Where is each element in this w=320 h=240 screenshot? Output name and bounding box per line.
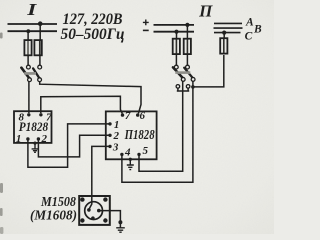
wire fuse F4 to switch S2 [186, 54, 188, 65]
switch S2 lower contact a [181, 78, 185, 82]
motor mounting dot top-right [103, 197, 107, 201]
wire R1828 pin7 to P1828 pin7 [41, 96, 123, 113]
wire phase C to switch S2 pole b [193, 55, 224, 87]
scan smudge left edge upper [0, 33, 3, 39]
node junction phase C tap [191, 85, 195, 89]
wire fuse F2 to switch S1 [39, 55, 41, 65]
switch S2 blade a [173, 67, 183, 78]
pin 2 of R1828 [37, 133, 48, 145]
pin 7 of P1828 [121, 110, 131, 122]
switch S2 upper contact b [186, 65, 190, 69]
polarity minus [143, 29, 149, 31]
node junction on II line2 [174, 30, 178, 34]
label M1508 [40, 194, 76, 209]
pin 3 of P1828 [108, 141, 119, 153]
node junction on line1 [38, 21, 43, 26]
motor M1508 connector box [79, 196, 110, 225]
label phase A [245, 17, 254, 29]
fuse F1 [24, 40, 31, 55]
switch S1 lower contact b [38, 78, 42, 82]
label R1828 [19, 119, 49, 134]
wire P1828 pin5 to connector X1 [139, 81, 183, 171]
wire fuse F3 to switch S2 [175, 54, 177, 65]
wire P1828 pin3 to motor [89, 146, 109, 208]
scan smudge left edge lower [0, 208, 3, 216]
motor mounting dot bottom-left [80, 218, 84, 222]
ground under P1828 [127, 158, 134, 170]
polarity plus [143, 20, 149, 26]
pin 8 of R1828 [19, 112, 31, 124]
pin 1 of R1828 [16, 133, 30, 145]
switch S2 upper contact a [174, 65, 178, 69]
wire S1 pole a to R1828 pin8 [28, 82, 30, 114]
pin 4 of P1828 [120, 146, 131, 158]
wire line2 branch II [154, 31, 195, 33]
pin 1 of P1828 [108, 119, 119, 131]
motor pin c [91, 216, 95, 220]
wire R1828 pin2 to P1828 pin2 [38, 135, 109, 157]
wire line1 branch I [8, 23, 58, 25]
value label 50-500Hz [61, 26, 125, 43]
wire phase C to fuse F5 [223, 33, 225, 39]
pin 2 of P1828 [108, 130, 119, 142]
node II label [198, 2, 213, 21]
switch S1 upper contact b [38, 65, 42, 69]
node junction on II line1 [185, 23, 189, 27]
motor pin b [97, 209, 101, 213]
scan smudge left edge middle [0, 183, 3, 193]
node junction on line2 [26, 29, 30, 33]
fuse F4 [184, 39, 191, 54]
pin 6 of P1828 [136, 110, 146, 122]
wire R1828 pin1 to P1828 pin1 [28, 124, 109, 167]
connector X1 plug bar [177, 88, 189, 91]
wire line2 branch I [8, 30, 58, 32]
wire line1 to fuse F2 [39, 24, 41, 41]
wire motor case to ground [99, 211, 123, 228]
wire fuse F1 to switch S1 [27, 55, 29, 65]
label P1828 [124, 127, 155, 142]
value label 127,220V [63, 11, 123, 28]
switch S1 blade b [33, 68, 39, 78]
node I label [26, 0, 38, 19]
fuse F2 [34, 40, 41, 55]
switch S2 lower contact b [191, 78, 195, 82]
switch S2 link bar [175, 71, 190, 74]
ground under R1828 [32, 142, 39, 153]
motor mounting dot bottom-right [103, 218, 107, 222]
wire phase B [214, 27, 243, 29]
fuse F3 [173, 39, 180, 54]
wire phase A [214, 22, 242, 24]
motor circle [85, 202, 103, 220]
switch S1 upper contact a [27, 65, 31, 69]
wire II line1 to fuse F4 [186, 25, 188, 39]
connector X1 socket a [176, 85, 180, 89]
label M1608 [30, 207, 77, 222]
switch S1 lower contact a [28, 78, 32, 82]
box P1828 [106, 111, 157, 159]
wire line2 to fuse F1 [27, 31, 29, 40]
pin 7 of R1828 [39, 112, 52, 124]
wire S1 pole b to P1828 pin6 [40, 82, 141, 114]
label phase B [253, 24, 262, 36]
wire P1828 pin4 to switch S2 pole b [122, 81, 193, 182]
label phase C [245, 31, 253, 43]
wire phase C [214, 32, 241, 34]
motor mounting dot top-left [80, 197, 84, 201]
ground at motor [116, 228, 125, 232]
fuse F5 [220, 38, 227, 53]
wire line1 branch II [154, 24, 195, 26]
motor pin a [87, 208, 91, 212]
scan smudge bottom-left corner [0, 227, 3, 234]
connector X1 socket b [186, 85, 190, 89]
switch S1 blade a [21, 68, 29, 78]
box R1828 [14, 111, 52, 143]
pin 5 of P1828 [137, 145, 148, 157]
switch S1 link bar [24, 72, 36, 75]
wire II line2 to fuse F3 [176, 32, 178, 39]
node junction on phase C [222, 30, 226, 34]
switch S2 blade b [184, 68, 193, 79]
